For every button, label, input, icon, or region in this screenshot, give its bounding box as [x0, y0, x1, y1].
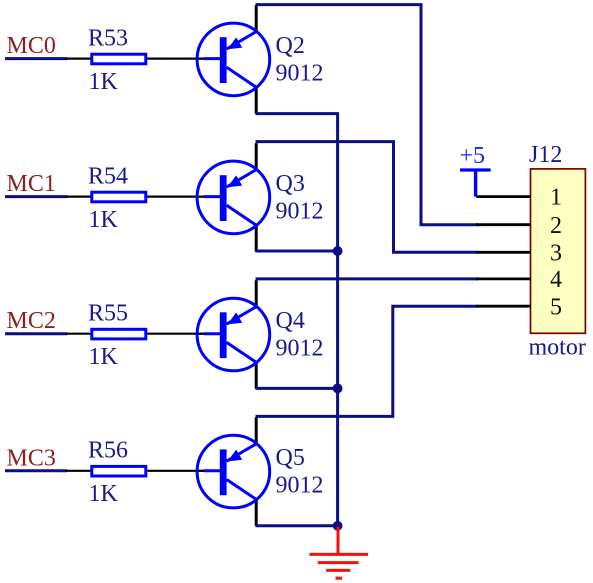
- resistor R54 pin 1: [66, 196, 91, 198]
- junction Q4 collector: [333, 384, 343, 394]
- connector J12 pin 2: [476, 223, 531, 226]
- svg-text:R53: R53: [88, 25, 128, 51]
- resistor R53 pin 1: [66, 57, 91, 59]
- label pin 2: [550, 213, 562, 239]
- transistor Q2 emitter pin: [255, 5, 258, 32]
- label Q2: [276, 33, 305, 59]
- transistor Q3 base pin: [196, 196, 207, 198]
- svg-text:1K: 1K: [89, 207, 119, 233]
- transistor Q5 collector pin: [255, 498, 258, 526]
- svg-text:Q4: Q4: [276, 308, 305, 334]
- wire MC1 net stub: [5, 195, 67, 198]
- label 9012: [276, 473, 324, 499]
- svg-text:2: 2: [550, 213, 562, 239]
- label 9012: [276, 61, 324, 87]
- transistor Q4 collector pin: [255, 361, 258, 389]
- connector J12 pin 1: [476, 195, 531, 198]
- label J12: [529, 142, 562, 168]
- label 1K: [89, 207, 119, 233]
- label Q5: [276, 445, 305, 471]
- transistor Q2: [197, 23, 270, 96]
- wire MC3 net stub: [5, 469, 67, 472]
- resistor R53 pin 2: [147, 57, 206, 59]
- label pin 3: [550, 240, 562, 266]
- resistor R55 body: [92, 329, 146, 339]
- node MC2: [7, 308, 56, 334]
- label pin 5: [550, 294, 562, 320]
- svg-text:5: 5: [550, 294, 562, 320]
- connector J12 pin 4: [476, 277, 531, 280]
- transistor Q3: [197, 161, 270, 234]
- transistor Q5 base pin: [196, 470, 207, 472]
- resistor R56 pin 1: [66, 470, 91, 472]
- label pin 1: [550, 185, 562, 211]
- wire Q4 emitter to J12 pin 4: [256, 277, 479, 280]
- resistor R54 pin 2: [147, 196, 206, 198]
- transistor Q3 emitter pin: [255, 143, 258, 170]
- svg-text:1K: 1K: [89, 481, 119, 507]
- svg-text:MC2: MC2: [7, 308, 56, 334]
- svg-text:4: 4: [550, 267, 562, 293]
- wire Q2 collector to ground bus: [256, 114, 338, 526]
- svg-text:9012: 9012: [276, 199, 324, 225]
- wire Q2 emitter to J12 pin 2: [256, 5, 479, 225]
- resistor R56 body: [92, 466, 146, 476]
- resistor R53 body: [92, 54, 146, 64]
- node MC3: [7, 445, 56, 471]
- svg-text:R54: R54: [88, 163, 128, 189]
- wire Q5 emitter to J12 pin 5: [256, 306, 479, 416]
- wire MC2 net stub: [5, 332, 67, 335]
- ground: [310, 527, 369, 578]
- transistor Q5: [197, 435, 270, 508]
- label R55: [88, 301, 128, 327]
- transistor Q2 base pin: [196, 57, 207, 59]
- label R53: [88, 25, 128, 51]
- resistor R56 pin 2: [147, 470, 206, 472]
- svg-text:Q3: Q3: [276, 171, 305, 197]
- svg-text:3: 3: [550, 240, 562, 266]
- label 1K: [89, 344, 119, 370]
- wire MC0 net stub: [5, 57, 67, 60]
- svg-text:+5: +5: [460, 143, 486, 169]
- resistor R54 body: [92, 192, 146, 202]
- transistor Q4 emitter pin: [255, 280, 258, 307]
- connector J12 body: [531, 169, 586, 333]
- svg-text:9012: 9012: [276, 61, 324, 87]
- svg-text:1K: 1K: [89, 344, 119, 370]
- wire Q3 collector: [256, 250, 338, 253]
- junction Q3 collector: [333, 246, 343, 256]
- resistor R55 pin 1: [66, 333, 91, 335]
- svg-text:9012: 9012: [276, 336, 324, 362]
- label motor: [529, 335, 586, 361]
- resistor R55 pin 2: [147, 333, 206, 335]
- svg-text:1K: 1K: [89, 69, 119, 95]
- connector J12 pin 3: [476, 251, 531, 254]
- node MC1: [7, 171, 56, 197]
- svg-text:1: 1: [550, 185, 562, 211]
- svg-text:Q2: Q2: [276, 33, 305, 59]
- wire Q4 collector: [256, 387, 338, 390]
- svg-text:R55: R55: [88, 301, 128, 327]
- label R56: [88, 438, 128, 464]
- label 1K: [89, 481, 119, 507]
- wire Q5 collector: [256, 524, 338, 527]
- connector J12 pin 5: [476, 305, 531, 308]
- label Q4: [276, 308, 305, 334]
- svg-text:MC3: MC3: [7, 445, 56, 471]
- svg-text:motor: motor: [529, 335, 586, 361]
- svg-text:J12: J12: [529, 142, 562, 168]
- svg-text:R56: R56: [88, 438, 128, 464]
- svg-text:MC0: MC0: [7, 33, 56, 59]
- transistor Q5 emitter pin: [255, 417, 258, 444]
- label 9012: [276, 336, 324, 362]
- transistor Q4: [197, 298, 270, 371]
- transistor Q4 base pin: [196, 333, 207, 335]
- junction ground node: [333, 521, 343, 531]
- svg-text:Q5: Q5: [276, 445, 305, 471]
- wire Q3 emitter to J12 pin 3: [256, 142, 479, 253]
- label pin 4: [550, 267, 562, 293]
- label 9012: [276, 199, 324, 225]
- svg-text:9012: 9012: [276, 473, 324, 499]
- power +5: [460, 143, 491, 196]
- label 1K: [89, 69, 119, 95]
- svg-text:MC1: MC1: [7, 171, 56, 197]
- label R54: [88, 163, 128, 189]
- transistor Q2 collector pin: [255, 86, 258, 114]
- label Q3: [276, 171, 305, 197]
- node MC0: [7, 33, 56, 59]
- transistor Q3 collector pin: [255, 224, 258, 252]
